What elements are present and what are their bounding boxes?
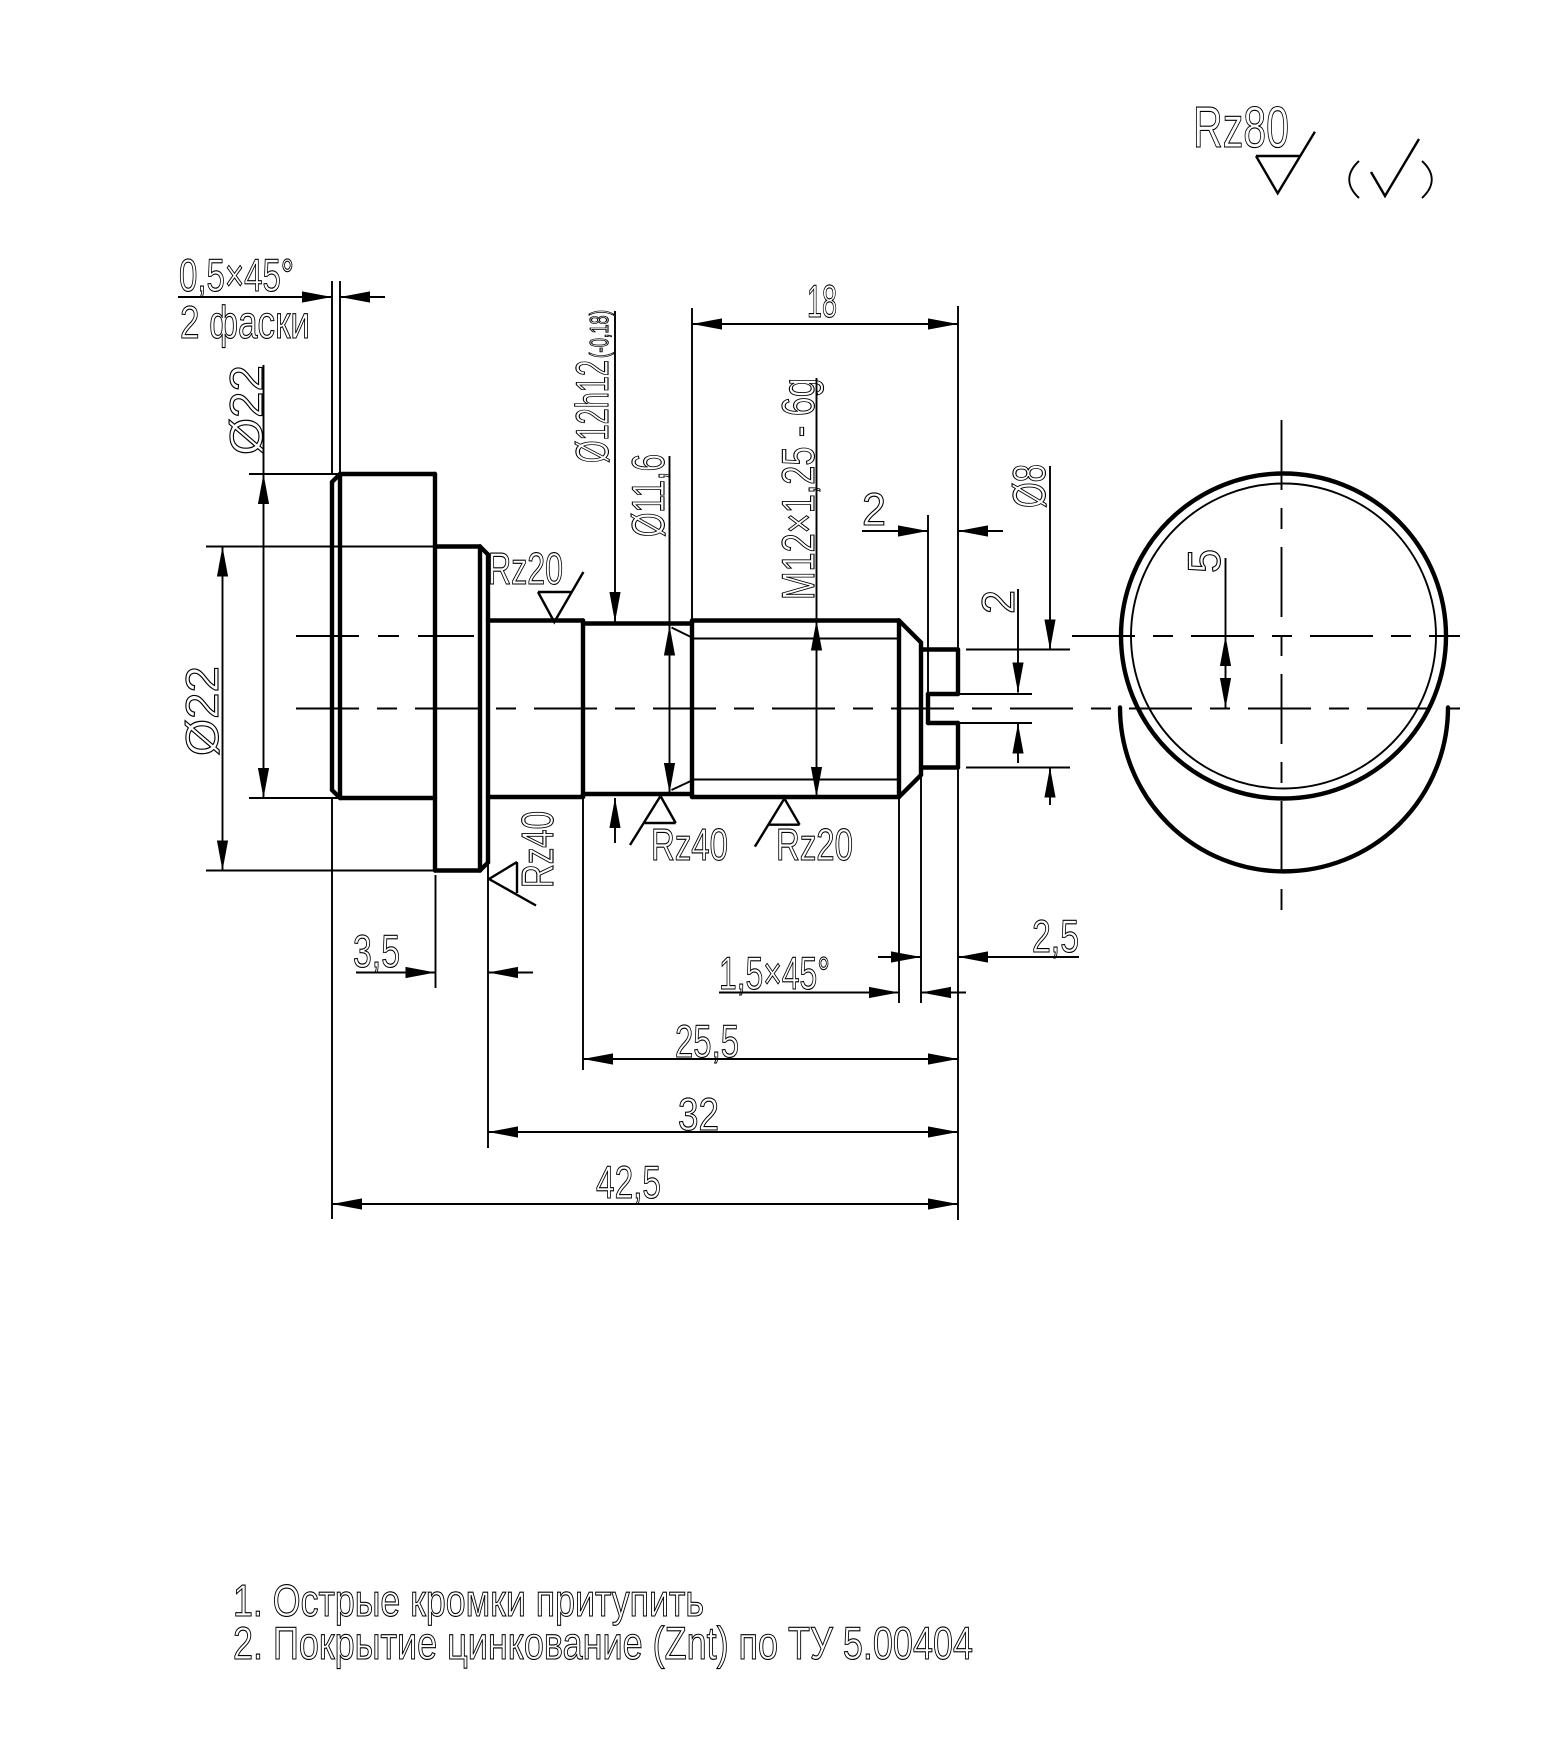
ext: tip top y649.5 [966,649,1070,651]
part: thread chamfer edge line [897,621,901,798]
part: collar right face [486,555,490,863]
part: tip right face upper [956,650,960,695]
part: head flange left face [330,482,334,790]
part: thread bottom edge [692,795,899,799]
svg-text:Rz20: Rz20 [488,543,563,594]
roughness Rz40 bottom symbol [630,796,676,845]
svg-text:25,5: 25,5 [675,1015,739,1067]
svg-text:Rz20: Rz20 [776,819,853,870]
roughness Rz40 collar symbol [489,862,536,906]
thread minor line top [694,638,899,640]
svg-text:Ø11,6: Ø11,6 [622,454,674,537]
svg-text:Ø22: Ø22 [220,365,272,455]
ext: tip bottom y767.5 [966,767,1070,769]
ext: chamfer left x332 top [331,281,333,474]
dim M12 line [816,378,818,797]
part: tip d8 top edge [921,647,958,651]
part: slot top edge [928,692,958,696]
dim d22 collar line [222,547,224,871]
svg-text:Rz40: Rz40 [512,811,563,888]
ext: head bottom y798 [249,797,340,799]
ext: x928 (slot 2) [927,515,929,694]
ext: slot bottom y723 [958,722,1032,724]
svg-text:M12×1,25 - 6g: M12×1,25 - 6g [772,378,824,600]
part: collar top-right chamfer [480,547,488,555]
part: undercut d11.6 bottom edge [583,792,692,796]
svg-text:2. Покрытие цинкование (Znt) п: 2. Покрытие цинкование (Znt) по ТУ 5.004… [233,1617,973,1669]
dim d12h12 line [614,311,616,622]
end view: head chamfer circle (thin) [1131,484,1436,789]
svg-text:0,5×45°: 0,5×45° [179,249,294,301]
dim 5 offset line [1225,558,1227,708]
part: collar bottom edge [435,868,480,872]
svg-text:Ø22: Ø22 [176,666,228,756]
svg-text:Ø8: Ø8 [1003,464,1055,508]
dim 25.5 line [583,1058,958,1060]
dim 2.5 line [878,956,921,958]
centerline: end view vertical [1281,420,1283,913]
ext: collar bottom y870.5 [206,870,435,872]
ext: x488 (3.5/32) [487,797,489,1148]
part: thread end face [919,643,923,776]
centerline: head axis (side view) [296,635,474,637]
part: collar bottom-right chamfer [480,863,488,871]
svg-text:2,5: 2,5 [1032,910,1079,962]
ext: x899 (1.5x45) [898,797,900,1003]
svg-text:Ø12h12: Ø12h12 [566,360,618,463]
part: undercut d11.6 top edge [583,621,692,625]
svg-text:42,5: 42,5 [596,1156,661,1208]
svg-text:Rz40: Rz40 [651,819,728,870]
svg-text:5: 5 [1178,549,1230,573]
svg-text:2: 2 [862,483,886,535]
part: head top-left chamfer [332,474,340,482]
dim 42.5 line [332,1203,958,1205]
part: step d12/d11.6 [581,621,585,798]
svg-text:18: 18 [807,275,837,327]
dim 3.5 line [356,972,436,974]
ext: x332 bottom (42.5) [331,798,333,1219]
svg-text:Rz80: Rz80 [1193,95,1289,160]
dim d22 head line [263,365,265,798]
part: head chamfer edge line [338,474,342,798]
thread minor line top runout [672,628,695,639]
svg-text:3,5: 3,5 [353,925,400,977]
roughness Rz20 bottom symbol [755,799,800,847]
thread minor line bottom [694,779,899,781]
part: thread top chamfer 1.5x45 [899,621,921,643]
ext: chamfer x340 top [339,281,341,474]
dim 18 line [692,323,958,325]
thread minor line bottom runout [672,780,695,791]
end view: collar circle d22 lower arc [1120,708,1448,872]
ext: head top y474 [249,473,340,475]
ext: x958 top [957,306,959,648]
part: slot bottom edge [928,721,958,725]
dim 2 slot depth line [862,530,928,532]
part: thread start face [690,621,694,798]
dim d11.6 line [669,456,671,793]
default roughness check in parens [1371,139,1419,196]
ext: slot top y694 [958,693,1032,695]
part: thread bottom chamfer [899,775,921,797]
svg-text:1,5×45°: 1,5×45° [719,947,830,999]
ext: collar top y546.5 [206,546,435,548]
paren left [1349,161,1359,198]
part: tip right face lower [956,723,960,768]
svg-text:2 фаски: 2 фаски [180,296,310,348]
svg-text:32: 32 [678,1088,719,1140]
part: thread top edge [692,618,899,622]
roughness Rz80 symbol top right [1256,132,1315,194]
part: head top edge [340,472,435,476]
part: head right face [433,474,437,871]
part: collar top edge [435,544,480,548]
part: shaft d12 top edge [488,618,583,622]
paren right [1422,161,1432,198]
ext: x583 (25.5) [582,797,584,1070]
part: tip d8 bottom edge [921,765,958,769]
svg-text:2: 2 [972,590,1024,614]
part: slot floor [926,694,930,723]
dim d8 line [1049,466,1051,650]
ext: x692 (18) [691,308,693,621]
end view: head circle d22 [1121,474,1446,799]
dim 32 line [488,1131,958,1133]
dim 1.5x45 line [719,992,899,994]
centerline: head axis (end view) [1072,635,1460,637]
ext: x921 (1.5x45/2.5) [920,775,922,1003]
part: head bottom edge [340,796,435,800]
ext: x435.5 (3.5) [435,875,437,988]
centerline: shaft axis (full width) [296,708,1460,710]
part: collar chamfer edge line [478,547,482,871]
dim 2 slot width line [1017,589,1019,693]
svg-text:(-0,18): (-0,18) [584,310,614,358]
roughness Rz20 top symbol [538,572,583,622]
dim 0.5x45 line [178,296,332,298]
part: head bottom-left chamfer [332,790,340,798]
part: shaft d12 bottom edge [488,795,583,799]
ext: x958 bottom [957,768,959,1220]
